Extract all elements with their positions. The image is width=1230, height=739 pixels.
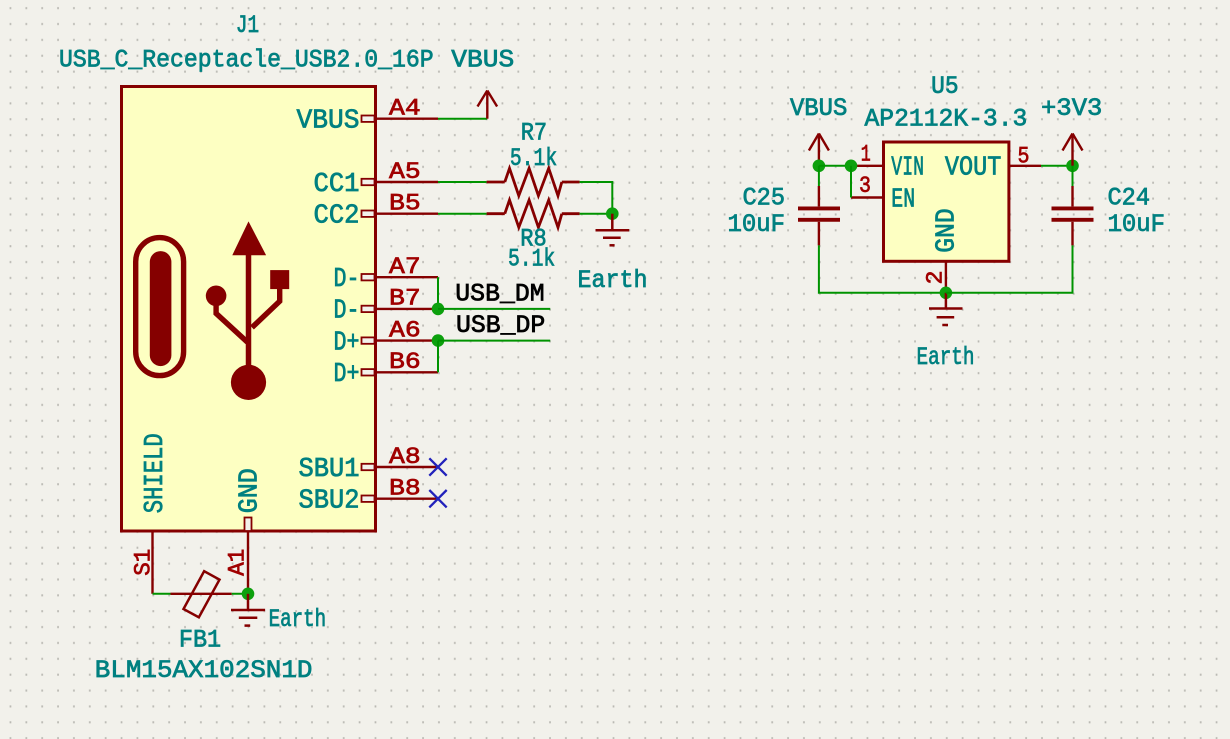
svg-text:AP2112K-3.3: AP2112K-3.3 — [865, 105, 1028, 134]
wire A4 to VBUS arrow — [438, 118, 487, 120]
svg-text:CC1: CC1 — [314, 170, 360, 200]
svg-text:B5: B5 — [389, 191, 421, 217]
svg-text:A6: A6 — [389, 317, 421, 343]
wire USB_DP — [438, 340, 550, 342]
svg-text:U5: U5 — [931, 72, 959, 101]
svg-text:SHIELD: SHIELD — [141, 433, 171, 513]
wire VOUT to +3V3 — [1041, 165, 1073, 167]
pin D+ B6 — [334, 349, 439, 390]
svg-text:A7: A7 — [389, 254, 421, 280]
wire VBUS down to C25 — [818, 166, 820, 186]
pin VOUT 5 — [945, 144, 1041, 184]
junction VBUS/C25 — [813, 160, 826, 173]
svg-text:5: 5 — [1018, 144, 1030, 170]
svg-text:USB_C_Receptacle_USB2.0_16P: USB_C_Receptacle_USB2.0_16P — [59, 46, 434, 75]
junction A6 — [432, 334, 445, 347]
capacitor C25 — [798, 186, 840, 245]
power symbol VBUS (J1) — [478, 91, 498, 119]
pin SHIELD S1 — [131, 433, 172, 594]
wire S1 to FB1 — [153, 593, 171, 595]
wire +3V3 down to C24 — [1072, 166, 1074, 186]
pin D+ A6 — [334, 317, 439, 358]
svg-text:Earth: Earth — [917, 343, 975, 372]
pin SBU2 B8 — [299, 476, 439, 517]
svg-text:CC2: CC2 — [314, 202, 360, 232]
USB logo arrow head — [232, 221, 266, 255]
svg-text:VIN: VIN — [891, 154, 924, 184]
resistor R7 — [487, 168, 580, 195]
svg-text:10uF: 10uF — [728, 210, 786, 239]
USB logo right branch square — [270, 270, 289, 289]
svg-text:BLM15AX102SN1D: BLM15AX102SN1D — [95, 656, 313, 685]
svg-text:SBU1: SBU1 — [299, 455, 360, 485]
ground Earth (J1) — [231, 594, 265, 626]
wire EN elbow — [850, 166, 852, 198]
pin GND 2 — [923, 208, 963, 292]
svg-text:J1: J1 — [236, 11, 259, 40]
svg-text:GND: GND — [236, 468, 266, 513]
pin D- B7 — [334, 286, 439, 327]
junction B7 — [432, 303, 445, 316]
svg-text:D-: D- — [334, 265, 360, 295]
regulator U5 body — [884, 142, 1009, 261]
junction EN branch — [845, 160, 858, 173]
svg-text:A1: A1 — [225, 549, 251, 576]
no-connect SBU1 — [429, 458, 446, 475]
svg-text:SBU2: SBU2 — [299, 487, 360, 517]
ferrite bead FB1 — [171, 571, 232, 617]
junction U5 ground — [940, 287, 953, 300]
pin CC1 A5 — [314, 159, 439, 200]
svg-text:A8: A8 — [389, 444, 421, 470]
wire A6 jog to B6 — [437, 341, 439, 373]
wire A7 jog to B7 — [437, 277, 439, 309]
USB logo right branch line — [252, 285, 280, 328]
svg-text:VOUT: VOUT — [945, 154, 1002, 184]
USB logo bottom circle — [231, 365, 266, 400]
wire B5 to R8 — [438, 213, 487, 215]
capacitor C24 — [1052, 186, 1094, 245]
svg-text:FB1: FB1 — [179, 625, 221, 654]
wire FB1 to junction — [232, 593, 248, 595]
power symbol +3V3 — [1063, 134, 1083, 166]
wire VBUS to EN branch — [819, 165, 851, 167]
svg-text:S1: S1 — [131, 549, 157, 576]
svg-text:2: 2 — [923, 271, 949, 285]
svg-text:C24: C24 — [1108, 184, 1151, 213]
svg-text:5.1k: 5.1k — [510, 144, 557, 173]
svg-text:+3V3: +3V3 — [1041, 94, 1102, 123]
power symbol VBUS (U5) — [809, 134, 829, 166]
svg-text:USB_DM: USB_DM — [455, 280, 544, 309]
svg-text:VBUS: VBUS — [790, 94, 848, 123]
pin VBUS A4 — [297, 96, 439, 137]
svg-text:B6: B6 — [389, 349, 421, 375]
junction CC pulldown — [606, 207, 619, 220]
pin CC2 B5 — [314, 191, 439, 232]
junction shield ground — [242, 588, 255, 601]
svg-text:D-: D- — [334, 297, 360, 327]
ground Earth (R8) — [596, 214, 630, 246]
svg-text:VBUS: VBUS — [451, 46, 514, 75]
USB logo trident stem — [246, 252, 252, 370]
ground Earth (U5) — [929, 293, 963, 325]
pin SBU1 A8 — [299, 444, 439, 485]
svg-text:GND: GND — [932, 208, 962, 253]
svg-text:Earth: Earth — [578, 266, 648, 295]
USB logo left branch line — [216, 300, 247, 342]
pin EN 3 — [851, 173, 915, 215]
wire C25 to ground rail — [819, 245, 946, 292]
pin GND A1 — [225, 468, 266, 594]
junction VOUT/C24 — [1066, 160, 1079, 173]
svg-text:Earth: Earth — [269, 605, 327, 634]
svg-text:A5: A5 — [389, 159, 421, 185]
svg-text:A4: A4 — [389, 96, 421, 122]
wire A5 to R7 — [438, 181, 487, 183]
svg-text:B8: B8 — [389, 476, 421, 502]
wire C24 to ground rail — [946, 245, 1073, 292]
svg-text:10uF: 10uF — [1108, 210, 1166, 239]
svg-text:B7: B7 — [389, 286, 421, 312]
svg-text:1: 1 — [861, 141, 871, 167]
resistor R8 — [487, 200, 580, 227]
svg-text:3: 3 — [859, 173, 871, 199]
svg-text:5.1k: 5.1k — [508, 245, 555, 274]
connector J1 body — [122, 87, 376, 532]
svg-text:VBUS: VBUS — [297, 107, 360, 137]
USB logo left branch dot — [206, 286, 227, 307]
svg-text:EN: EN — [891, 185, 915, 215]
svg-text:C25: C25 — [743, 184, 786, 213]
svg-text:D+: D+ — [334, 328, 360, 358]
wire R7 to junction — [580, 182, 613, 214]
pin D- A7 — [334, 254, 439, 295]
svg-text:D+: D+ — [334, 360, 360, 390]
pin VIN 1 — [851, 141, 924, 183]
USB logo capsule outline — [136, 238, 184, 376]
wire USB_DM — [438, 308, 550, 310]
svg-text:USB_DP: USB_DP — [456, 311, 545, 340]
USB logo capsule inner bar — [150, 251, 172, 366]
no-connect SBU2 — [429, 490, 446, 507]
wire R8 to junction — [580, 213, 613, 215]
